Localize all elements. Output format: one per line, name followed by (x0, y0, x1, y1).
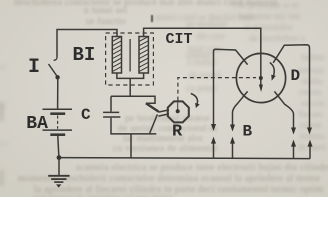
dashed shaft link cam R to distributor (178, 78, 256, 101)
spark gap electrode B4 (308, 140, 313, 159)
label CIT (166, 31, 193, 48)
label I (28, 56, 40, 79)
spark gap electrode B3 (291, 140, 296, 159)
wire: ground lead (58, 158, 60, 175)
svg-text:BI: BI (73, 44, 96, 66)
svg-text:BA: BA (26, 114, 48, 134)
capacitor C plates (103, 112, 120, 117)
coil CIT primary winding (112, 37, 121, 74)
wire: distributor output 2 (230, 91, 248, 131)
svg-text:CIT: CIT (166, 31, 193, 48)
wire: distributor output 4 (273, 45, 312, 135)
spark gap electrode B2 (230, 137, 235, 159)
distributor D body (236, 53, 285, 102)
breaker contact gap (158, 110, 169, 116)
wire: battery negative to ground node (58, 136, 59, 158)
switch I (49, 58, 60, 80)
label B (243, 123, 253, 141)
distributor rotor arm (259, 76, 263, 92)
breaker lever arm (146, 103, 159, 133)
label BA (26, 114, 48, 134)
cam R octagon (168, 101, 189, 122)
background bleed-through text (14, 0, 278, 8)
label BI (73, 44, 96, 66)
coil CIT secondary winding (139, 37, 148, 74)
svg-text:I: I (28, 56, 40, 79)
svg-text:R: R (172, 123, 183, 142)
coil CIT dashed enclosure (106, 33, 154, 85)
wire: switch I to battery positive (57, 78, 59, 109)
svg-text:C: C (81, 106, 91, 124)
wire: switch I fixed contact to coil primary top (57, 30, 117, 58)
wire: distributor output 3 (274, 91, 296, 134)
wire: coil windings common bottom and tap to breaker (117, 73, 144, 96)
rotation arrow in distributor (270, 63, 276, 81)
coil CIT core (129, 39, 131, 72)
wire: distributor output 1 (211, 49, 248, 131)
node: ground junction (57, 155, 62, 160)
wire: common return (bottom) (59, 158, 310, 159)
ground (48, 176, 69, 188)
svg-text:D: D (291, 67, 301, 85)
label D (291, 67, 301, 85)
battery BA (43, 109, 73, 134)
breaker housing loop with capacitor branch (111, 96, 156, 158)
spark gap electrode B1 (211, 137, 216, 158)
label C (81, 106, 91, 124)
wire: coil secondary to distributor rotor (144, 28, 261, 78)
svg-text:B: B (243, 123, 253, 141)
rotation arrow at cam R (191, 94, 200, 109)
label R (172, 123, 183, 142)
